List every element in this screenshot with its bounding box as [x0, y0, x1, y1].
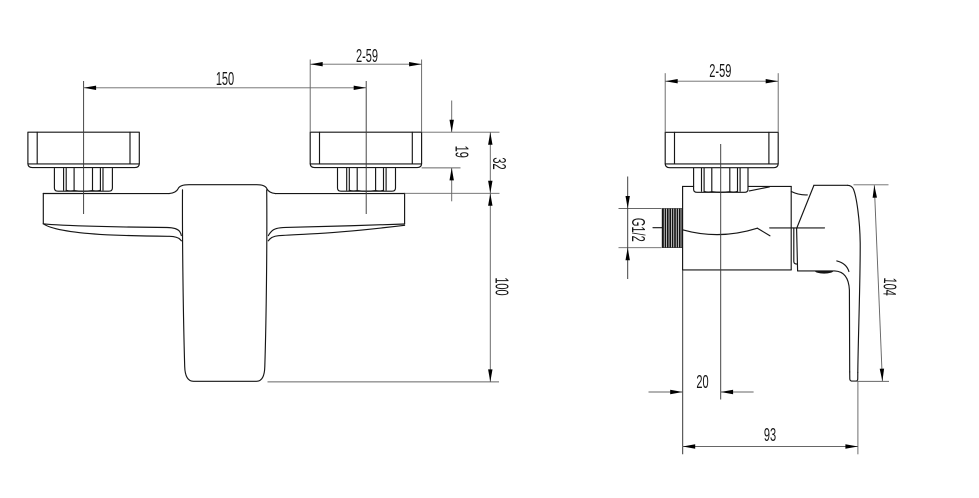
- lever tip extension: [857, 382, 859, 455]
- arrow G1/2 top: [626, 196, 630, 209]
- centerline right flange axis: [365, 81, 367, 214]
- interior sphere arc: [683, 228, 758, 234]
- arrow 100 bottom: [488, 369, 492, 382]
- svg-text:32: 32: [488, 157, 509, 169]
- lever top edge: [814, 184, 848, 186]
- dim 2-59 side extension right: [777, 73, 779, 132]
- arrow 2-59 front left: [310, 62, 323, 66]
- svg-text:G1/2: G1/2: [627, 218, 648, 242]
- dim 93 line: [683, 446, 858, 448]
- mixer body top edge left segment: [43, 193, 169, 195]
- G1/2 bottom extension: [619, 247, 662, 249]
- right mounting nut: [338, 169, 396, 192]
- G1/2 top extension: [619, 208, 662, 210]
- threaded inlet nipple: [662, 208, 683, 248]
- right spout blade lower line: [268, 225, 404, 241]
- lever right edge: [848, 185, 861, 372]
- handle bottom extension line: [268, 381, 500, 383]
- dim 2-59 front line: [310, 63, 421, 65]
- handle cap bump: [169, 185, 276, 194]
- lever underside and elbow: [798, 271, 850, 372]
- G1/2 dim line: [627, 177, 629, 280]
- dim 104 line (slightly tilted): [874, 185, 882, 381]
- arrow 100 top: [488, 193, 492, 206]
- dim 19 line: [451, 101, 453, 133]
- arrow 19 bottom: [450, 168, 454, 181]
- lever top extension: [854, 184, 889, 186]
- arrow 2-59 front right: [409, 62, 422, 66]
- arrow 93 left: [683, 444, 696, 448]
- arrow 32 top: [488, 132, 492, 145]
- lever bottom extension: [851, 380, 889, 382]
- body left edge extension: [682, 270, 684, 454]
- inlet axis tick right: [770, 227, 825, 229]
- svg-text:19: 19: [450, 146, 471, 158]
- left spout blade upper line: [43, 224, 181, 236]
- arrow 93 right: [845, 444, 858, 448]
- dim 2-59 front extension left: [309, 60, 311, 133]
- right spout blade upper line: [268, 224, 404, 236]
- dim 2-59 side line: [665, 80, 778, 82]
- body top extension line: [405, 192, 500, 194]
- valve body outline: [683, 186, 792, 270]
- gap line body side: [794, 228, 797, 264]
- right escutcheon flange: [310, 132, 421, 167]
- inlet axis tick left: [653, 227, 662, 229]
- lever front edge: [797, 229, 798, 271]
- arrow 19 top: [450, 120, 454, 133]
- svg-text:2-59: 2-59: [709, 61, 731, 82]
- arrow 2-59 side right: [766, 79, 779, 83]
- left spout blade lower line: [43, 224, 181, 241]
- svg-text:150: 150: [216, 69, 234, 90]
- dim 32 line: [489, 132, 491, 193]
- left escutcheon flange: [28, 132, 139, 167]
- side mounting nut: [694, 168, 748, 192]
- elbow inner curve: [837, 261, 849, 272]
- arc end tick: [757, 228, 770, 236]
- side escutcheon flange: [665, 132, 778, 167]
- dim 20 line left: [649, 391, 683, 393]
- dim 2-59 front extension right: [421, 60, 423, 133]
- arrow 2-59 side left: [665, 79, 678, 83]
- centerline left flange axis: [83, 81, 85, 214]
- fillet between body and lever: [791, 192, 807, 195]
- lever head diagonal edge: [797, 185, 814, 228]
- body shoulder chamfer: [749, 187, 769, 191]
- dim 2-59 side extension left: [664, 73, 666, 132]
- lever blade bottom cap: [850, 372, 858, 381]
- dim 150 line: [84, 87, 367, 89]
- svg-text:100: 100: [491, 277, 512, 295]
- arrow 104 bottom: [880, 369, 884, 382]
- set screw recess: [815, 271, 834, 274]
- arrow 104 top: [873, 185, 877, 198]
- left mounting nut: [54, 169, 112, 192]
- handle grip outline: [182, 190, 266, 381]
- svg-text:2-59: 2-59: [356, 46, 378, 67]
- arrow 20 left: [670, 390, 683, 394]
- dim 20 line right: [721, 391, 754, 393]
- mixer body top edge right segment: [275, 193, 404, 195]
- flange top extension line: [422, 131, 500, 133]
- side axis centerline: [720, 144, 722, 400]
- dim 100 line: [489, 193, 491, 382]
- svg-text:93: 93: [764, 425, 776, 446]
- arrow 32 bottom: [488, 181, 492, 194]
- arrow 150 right: [354, 86, 367, 90]
- body left edge: [42, 193, 44, 223]
- flange bottom extension line: [422, 167, 461, 169]
- arrow 20 right: [721, 390, 734, 394]
- svg-text:20: 20: [696, 372, 708, 393]
- arrow 150 left: [84, 86, 97, 90]
- svg-text:104: 104: [879, 277, 900, 296]
- arrow G1/2 bottom: [626, 248, 630, 261]
- body right edge: [404, 193, 406, 224]
